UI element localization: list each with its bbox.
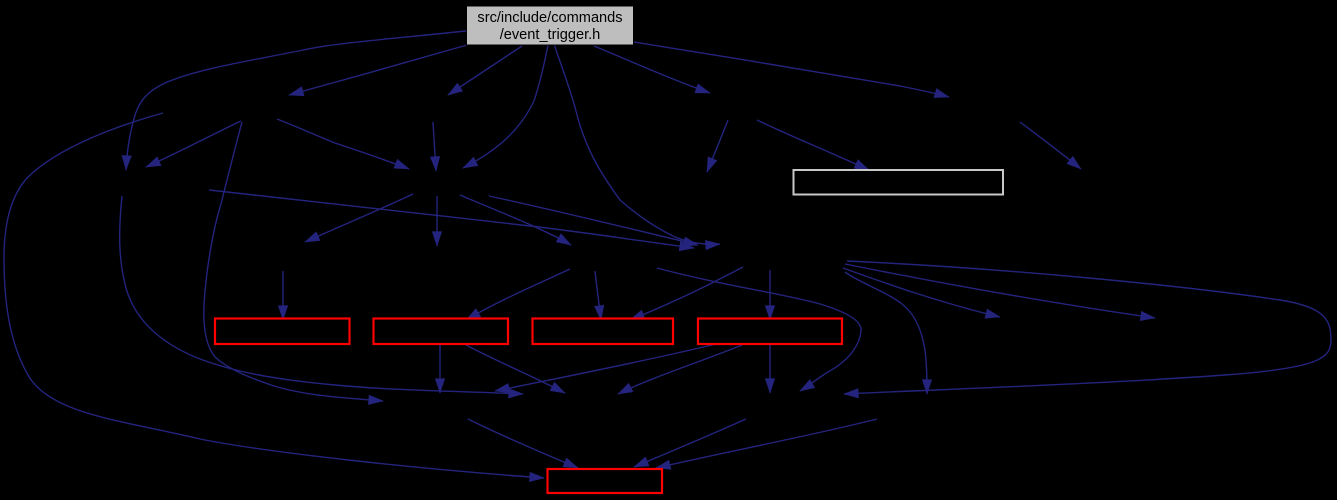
- wire edge main to N2b: [448, 46, 522, 95]
- node white box: [794, 170, 1004, 195]
- node main src/include/commands/event_trigger.h: [467, 6, 634, 45]
- wire edge hub to N6d hook: [845, 272, 927, 394]
- wire edge N4b to N6c hook: [657, 268, 861, 391]
- wire edge C to N4mid: [436, 196, 438, 246]
- wire edge N2a big sweep to bottom box: [4, 113, 544, 478]
- wire edge N3L to N6b: [120, 196, 523, 394]
- wire edge main to N2c: [594, 46, 710, 93]
- wire edge N3L to hub: [209, 190, 694, 248]
- wire edge hub to N5e: [843, 268, 1000, 317]
- wire edge box4 to N6c: [769, 345, 771, 393]
- wire edge main to N2a: [289, 45, 467, 95]
- wire edge N6d to bottom box: [656, 419, 877, 468]
- wire edge box4 to N6a: [495, 344, 716, 391]
- wire edge N4b to box3: [595, 271, 601, 320]
- node red box4: [698, 319, 842, 345]
- wire edge main to N2d: [634, 42, 949, 97]
- wire edge N2b to C: [433, 122, 436, 171]
- wire edge C to N4b: [460, 195, 571, 245]
- wire edge hub loop to N6c: [844, 261, 1331, 394]
- wire edge N2d to N3c: [1020, 122, 1081, 169]
- wire edge C to hub: [489, 196, 698, 245]
- wire edge hub to N5f: [845, 264, 1155, 318]
- wire edge box2 to N6b: [466, 345, 565, 393]
- wire edge N2c to N3a: [707, 120, 728, 172]
- node red bottom box: [548, 469, 663, 493]
- wire edge hub to box3: [630, 267, 743, 320]
- wire edge box4 to N6b: [618, 345, 742, 394]
- wire edge main to N3L: [126, 31, 466, 170]
- wire edge box2 to N6a: [439, 345, 441, 393]
- wire edge N6a to bottom box: [468, 419, 578, 468]
- wire edge N2c to white box: [757, 120, 869, 170]
- wire edge N2a to N3L: [146, 121, 241, 167]
- wire edge N4b to box2: [466, 269, 570, 320]
- wire edge hub to box4: [769, 270, 771, 320]
- wire edge N2a to N6a: [204, 122, 383, 401]
- wire edge C to N4a: [305, 194, 413, 242]
- node red box3: [533, 319, 674, 345]
- wire edge N2a to C: [277, 119, 409, 169]
- node red box2: [374, 319, 509, 345]
- node main label: [466, 10, 634, 44]
- node red box1: [215, 319, 350, 345]
- wire edge main to hub: [554, 44, 720, 244]
- wire edge N6c to bottom box: [634, 419, 746, 467]
- wire edge main to C: [463, 45, 548, 168]
- wire edge N4a to box1: [282, 271, 284, 320]
